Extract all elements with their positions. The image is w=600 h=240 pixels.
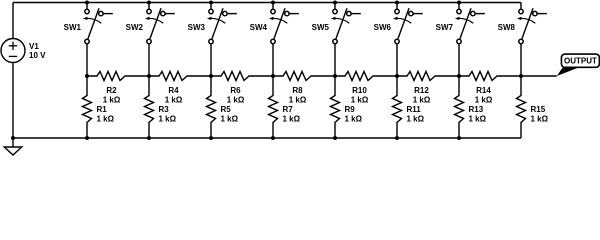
junction dot node 3 (209, 74, 213, 78)
svg-text:R11: R11 (407, 105, 422, 114)
junction dot node 8 (519, 74, 523, 78)
svg-text:R15: R15 (531, 105, 546, 114)
svg-text:R13: R13 (469, 105, 484, 114)
wire SW1 pole down to node 1 (86, 44, 88, 76)
junction dot bottom rail at node 1 (85, 136, 89, 140)
junction dot bottom rail at node 2 (147, 136, 151, 140)
svg-text:SW7: SW7 (436, 23, 454, 32)
svg-text:10 V: 10 V (29, 51, 46, 60)
svg-text:R2: R2 (106, 86, 117, 95)
switch SW3 (188, 3, 237, 44)
junction dot V1 / ground / bottom rail (11, 136, 15, 140)
svg-text:R9: R9 (345, 105, 356, 114)
svg-text:SW2: SW2 (126, 23, 144, 32)
svg-text:OUTPUT: OUTPUT (564, 57, 597, 66)
svg-text:R6: R6 (230, 86, 241, 95)
resistor R8 1 k&#937; (horizontal, node 4 to node 5) (273, 72, 335, 105)
junction dot bottom rail at node 4 (271, 136, 275, 140)
junction dot node 2 (147, 74, 151, 78)
junction dot top rail at SW5 (333, 1, 337, 5)
svg-text:R5: R5 (221, 105, 232, 114)
switch SW6 (374, 3, 423, 44)
OUTPUT net flag (557, 54, 600, 76)
switch SW2 (126, 3, 175, 44)
junction dot node 6 (395, 74, 399, 78)
wire SW8 pole down to node 8 (520, 44, 522, 76)
junction dot top rail at SW3 (209, 1, 213, 5)
resistor R4 1 k&#937; (horizontal, node 2 to node 3) (149, 72, 211, 105)
svg-text:1 kΩ: 1 kΩ (159, 114, 177, 123)
resistor R12 1 k&#937; (horizontal, node 6 to node 7) (397, 72, 459, 105)
wire node 8 to OUTPUT flag (521, 75, 557, 77)
switch SW4 (250, 3, 299, 44)
junction dot top rail at SW1 (85, 1, 89, 5)
svg-text:1 kΩ: 1 kΩ (469, 114, 487, 123)
ground (4, 147, 21, 155)
wire SW7 pole down to node 7 (458, 44, 460, 76)
switch SW5 (312, 3, 361, 44)
wire SW2 pole down to node 2 (148, 44, 150, 76)
resistor R9 1 k&#937; (vertical, node 5 to ground rail) (331, 76, 363, 138)
junction dot top rail at SW2 (147, 1, 151, 5)
wire ground stub (12, 138, 14, 147)
junction dot top rail at SW7 (457, 1, 461, 5)
svg-text:1 kΩ: 1 kΩ (413, 95, 431, 104)
junction dot bottom rail at node 7 (457, 136, 461, 140)
svg-text:1 kΩ: 1 kΩ (97, 114, 115, 123)
wire V1 negative lead to bottom rail (12, 63, 14, 139)
svg-text:1 kΩ: 1 kΩ (531, 114, 549, 123)
resistor R2 1 k&#937; (horizontal, node 1 to node 2) (87, 72, 149, 105)
junction dot top rail at SW4 (271, 1, 275, 5)
svg-text:SW1: SW1 (64, 23, 82, 32)
junction dot node 7 (457, 74, 461, 78)
switch SW1 (64, 3, 113, 44)
svg-text:1 kΩ: 1 kΩ (165, 95, 183, 104)
wire V1 positive lead to top rail (12, 3, 14, 39)
svg-text:1 kΩ: 1 kΩ (407, 114, 425, 123)
svg-text:1 kΩ: 1 kΩ (351, 95, 369, 104)
junction dot node 5 (333, 74, 337, 78)
svg-text:1 kΩ: 1 kΩ (283, 114, 301, 123)
svg-text:SW5: SW5 (312, 23, 330, 32)
svg-text:1 kΩ: 1 kΩ (221, 114, 239, 123)
junction dot top rail at SW6 (395, 1, 399, 5)
resistor R14 1 k&#937; (horizontal, node 7 to node 8) (459, 72, 521, 105)
resistor R1 1 k&#937; (vertical, node 1 to ground rail) (83, 76, 115, 138)
svg-text:1 kΩ: 1 kΩ (475, 95, 493, 104)
svg-text:R12: R12 (414, 86, 429, 95)
svg-text:V1: V1 (29, 42, 39, 51)
svg-text:R7: R7 (283, 105, 294, 114)
wire top rail (V1+ to SW8) (13, 2, 521, 4)
resistor R7 1 k&#937; (vertical, node 4 to ground rail) (269, 76, 301, 138)
resistor R11 1 k&#937; (vertical, node 6 to ground rail) (393, 76, 425, 138)
svg-text:R10: R10 (352, 86, 367, 95)
wire SW5 pole down to node 5 (334, 44, 336, 76)
svg-text:R14: R14 (476, 86, 491, 95)
svg-text:SW3: SW3 (188, 23, 206, 32)
switch SW7 (436, 3, 485, 44)
wire SW4 pole down to node 4 (272, 44, 274, 76)
junction dot node 1 (85, 74, 89, 78)
svg-text:1 kΩ: 1 kΩ (289, 95, 307, 104)
junction dot bottom rail at node 3 (209, 136, 213, 140)
resistor R5 1 k&#937; (vertical, node 3 to ground rail) (207, 76, 239, 138)
wire SW6 pole down to node 6 (396, 44, 398, 76)
resistor R13 1 k&#937; (vertical, node 7 to ground rail) (455, 76, 487, 138)
junction dot bottom rail at node 5 (333, 136, 337, 140)
resistor R3 1 k&#937; (vertical, node 2 to ground rail) (145, 76, 177, 138)
svg-text:R3: R3 (159, 105, 170, 114)
wire SW3 pole down to node 3 (210, 44, 212, 76)
svg-text:R4: R4 (168, 86, 179, 95)
resistor R15 1 k&#937; (vertical, node 8 to ground rail) (517, 76, 549, 138)
switch SW8 (498, 3, 547, 44)
svg-text:R1: R1 (97, 105, 108, 114)
svg-text:1 kΩ: 1 kΩ (103, 95, 121, 104)
svg-text:1 kΩ: 1 kΩ (345, 114, 363, 123)
resistor R10 1 k&#937; (horizontal, node 5 to node 6) (335, 72, 397, 105)
wire bottom rail (ground net) (13, 137, 521, 139)
svg-text:SW8: SW8 (498, 23, 516, 32)
svg-text:SW4: SW4 (250, 23, 268, 32)
svg-text:1 kΩ: 1 kΩ (227, 95, 245, 104)
junction dot bottom rail at node 6 (395, 136, 399, 140)
svg-text:R8: R8 (292, 86, 303, 95)
voltage source V1 10 V (1, 39, 46, 63)
svg-text:SW6: SW6 (374, 23, 392, 32)
resistor R6 1 k&#937; (horizontal, node 3 to node 4) (211, 72, 273, 105)
junction dot node 4 (271, 74, 275, 78)
